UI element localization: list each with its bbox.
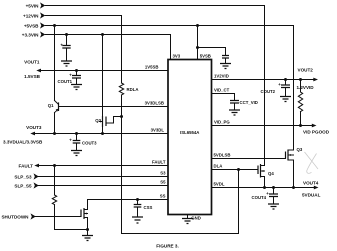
- svg-text:S5: S5: [160, 179, 166, 184]
- junction +3.3VIN cap tap: [65, 33, 68, 36]
- junction on +5VSB rail at Q1 branch: [53, 24, 56, 27]
- wire +5VSB rail to Q3 drain: [45, 26, 293, 151]
- wire DLA line to Q4 gate: [212, 169, 259, 171]
- node FAULT output arrow: [19, 163, 39, 168]
- wire SS pin line: [88, 199, 169, 201]
- capacitor COUT3: [69, 134, 97, 151]
- junction COUT2 tap: [284, 78, 287, 81]
- svg-text:3V3DL: 3V3DL: [151, 127, 165, 132]
- capacitor CCT_VID: [230, 100, 258, 110]
- ground 3.3VIN cap: [61, 61, 72, 66]
- junction Q1 emitter on VOUT3: [53, 132, 56, 135]
- svg-text:1.5VSB: 1.5VSB: [24, 74, 41, 79]
- wire +5VSB down to Q1 collector: [54, 26, 56, 101]
- svg-text:FAULT: FAULT: [19, 163, 34, 168]
- wire pulldown to shutdown FET source: [55, 205, 88, 230]
- node +5VIN input connector: [26, 2, 46, 8]
- ground CSS: [132, 217, 143, 223]
- svg-text:1V5SB: 1V5SB: [145, 64, 159, 69]
- svg-text:+3.3VIN: +3.3VIN: [22, 32, 39, 37]
- svg-text:VOUT3: VOUT3: [26, 125, 42, 130]
- node +12VIN input connector: [23, 12, 45, 18]
- svg-text:COUT2: COUT2: [261, 89, 276, 94]
- svg-text:Q4: Q4: [268, 171, 274, 176]
- transistor Q1: [48, 101, 59, 134]
- capacitor 5VSB decoupling: [222, 56, 229, 64]
- svg-text:COUT1: COUT1: [58, 79, 73, 84]
- svg-text:COUT4: COUT4: [252, 195, 267, 200]
- svg-text:5VDUAL: 5VDUAL: [302, 193, 321, 198]
- svg-text:5VDL: 5VDL: [214, 181, 225, 186]
- ground IC GND pin: [182, 219, 193, 224]
- wire 5VDL / VOUT4 line: [212, 187, 315, 189]
- node VOUT4 output arrow: [302, 180, 321, 197]
- wire FAULT line: [39, 165, 169, 167]
- wire DLA net from RDLA around to DLA pin: [122, 95, 239, 234]
- svg-text:5VSB: 5VSB: [200, 53, 211, 58]
- svg-text:VID_PG: VID_PG: [214, 119, 230, 124]
- junction Q3 source on VOUT4: [292, 186, 295, 189]
- wire +3.3VIN down to Q2 drain: [102, 35, 104, 117]
- ground COUT1: [71, 85, 82, 90]
- svg-text:5VDLSB: 5VDLSB: [214, 152, 231, 157]
- svg-text:CSS: CSS: [144, 205, 153, 210]
- svg-text:S3: S3: [160, 170, 166, 175]
- ground COUT4: [268, 204, 279, 209]
- svg-text:3V3DLSB: 3V3DLSB: [145, 100, 164, 105]
- pin GND: [188, 215, 201, 221]
- svg-text:VOUT4: VOUT4: [303, 180, 319, 185]
- svg-text:+12VIN: +12VIN: [23, 13, 39, 18]
- capacitor 3.3VIN decoupling: [60, 35, 70, 62]
- junction FAULT pulldown tap: [53, 164, 56, 167]
- node +5VSB input connector: [24, 22, 45, 28]
- wire SLP_S3 to S3 pin: [39, 176, 169, 178]
- svg-text:1V2VID: 1V2VID: [214, 73, 229, 78]
- junction on +5VSB rail at IC pin branch: [196, 24, 199, 27]
- svg-text:RDLA: RDLA: [127, 87, 139, 92]
- wire 5VSB decoupling cap branch: [198, 48, 226, 56]
- svg-text:SHUTDOWN: SHUTDOWN: [1, 214, 29, 219]
- wire VOUT2 / 1V2VID line: [212, 79, 314, 81]
- node VOUT2 output arrow: [297, 68, 319, 91]
- wire VID_CT pin to cap: [212, 94, 235, 101]
- capacitor COUT1: [58, 71, 82, 85]
- svg-text:CCT_VID: CCT_VID: [240, 100, 258, 105]
- svg-text:FAULT: FAULT: [152, 159, 166, 164]
- svg-text:COUT3: COUT3: [82, 141, 97, 146]
- ground COUT3: [71, 151, 82, 156]
- wire 3V3DLSB line (Q1 base to IC): [59, 106, 169, 108]
- transistor Q3: [286, 147, 303, 188]
- junction shutdown FET source to ground: [86, 228, 89, 231]
- svg-text:Q1: Q1: [48, 103, 54, 108]
- capacitor CSS: [134, 200, 153, 218]
- transistor Q2: [95, 116, 121, 134]
- svg-text:VOUT1: VOUT1: [24, 60, 40, 65]
- svg-text:Q3: Q3: [297, 147, 303, 152]
- svg-text:+5VSB: +5VSB: [24, 23, 39, 28]
- wire 5VDLSB line to Q3 gate: [212, 158, 286, 160]
- svg-text:3.3VDUAL/3.3VSB: 3.3VDUAL/3.3VSB: [3, 139, 43, 144]
- wire +5VIN rail to Q4 drain: [45, 6, 264, 166]
- ground CCT_VID: [229, 110, 240, 115]
- junction DLA pin line: [237, 168, 240, 171]
- node SLP_S3 input connector: [14, 173, 38, 179]
- junction Q4 source on VOUT4: [263, 186, 266, 189]
- svg-text:FIGURE 3.: FIGURE 3.: [156, 244, 178, 249]
- ground 5VSB cap: [220, 64, 231, 69]
- wire +12VIN rail to RDLA top: [45, 16, 121, 84]
- op-amp U1 ISL6554A controller body: [168, 60, 212, 215]
- svg-text:VID_CT: VID_CT: [214, 87, 230, 92]
- junction COUT3 tap: [75, 132, 78, 135]
- svg-text:SLP_S5: SLP_S5: [14, 183, 32, 188]
- junction 5VSB pin cap tap: [196, 46, 199, 49]
- watermark squiggle: [305, 152, 319, 173]
- node SHUTDOWN input connector: [1, 213, 35, 219]
- wire SLP_S5 to S5 pin: [39, 185, 169, 187]
- node VOUT1 output arrow: [24, 60, 41, 79]
- junction +3.3VIN Q2 drain tap: [101, 33, 104, 36]
- svg-text:3V3: 3V3: [173, 53, 181, 58]
- svg-text:SLP_S3: SLP_S3: [14, 174, 32, 179]
- svg-text:+5VIN: +5VIN: [26, 3, 40, 8]
- junction Q2 gate on DLA net: [120, 115, 123, 118]
- svg-text:ISL6554A: ISL6554A: [180, 130, 199, 135]
- node +3.3VIN input connector: [22, 31, 46, 37]
- svg-text:1.2VVID: 1.2VVID: [297, 85, 315, 90]
- capacitor COUT4: [252, 188, 279, 205]
- transistor Q5 shutdown FET: [81, 200, 88, 230]
- wire SHUTDOWN to FET gate: [36, 216, 82, 218]
- junction CSS tap: [136, 198, 139, 201]
- svg-text:VOUT2: VOUT2: [298, 68, 314, 73]
- wire VID_PG line: [212, 125, 313, 127]
- ground COUT2: [280, 97, 291, 102]
- resistor RDLA: [119, 83, 138, 95]
- node VID PGOOD output arrow: [303, 124, 330, 135]
- junction Q2 source on VOUT3: [101, 132, 104, 135]
- wire VOUT1 / 1V5SB line: [41, 70, 169, 72]
- resistor FAULT pulldown: [52, 195, 56, 205]
- junction PGOOD pullup top: [299, 78, 302, 81]
- wire VOUT3 / 3V3DL line: [35, 133, 169, 135]
- node VOUT3 output arrow: [3, 125, 43, 144]
- junction PGOOD pullup bottom: [299, 124, 302, 127]
- capacitor COUT2: [261, 80, 291, 97]
- svg-text:VID PGOOD: VID PGOOD: [303, 129, 330, 134]
- wire +3.3VIN rail to IC 3V3 pin: [45, 35, 170, 60]
- ground shutdown FET: [82, 230, 93, 241]
- svg-text:DLA: DLA: [214, 163, 223, 168]
- junction COUT4 tap: [272, 186, 275, 189]
- node SLP_S5 input connector: [14, 182, 38, 188]
- resistor PGOOD pullup: [298, 80, 302, 126]
- wire +5VSB down to IC 5VSB pin: [197, 26, 199, 60]
- wire FAULT pulldown vertical: [54, 166, 56, 196]
- junction COUT1 tap: [75, 69, 78, 72]
- transistor Q4: [258, 164, 274, 188]
- svg-text:SS: SS: [160, 193, 166, 198]
